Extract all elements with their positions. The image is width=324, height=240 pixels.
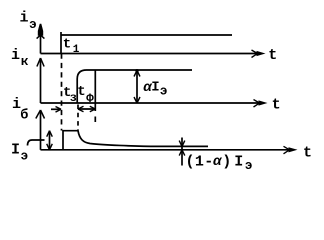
wire: i_k exponential rise waveform [77,70,192,103]
svg-text:)I: )I [222,154,246,171]
svg-text:t: t [63,36,71,52]
svg-text:з: з [70,91,77,105]
wire: dashed marker at rise start [77,105,79,131]
svg-text:Ф: Ф [86,92,94,106]
svg-text:t: t [272,97,281,114]
wire: i_e step waveform [61,32,232,54]
svg-text:э: э [245,158,253,173]
svg-text:i: i [11,47,20,64]
node label i_k (plot2 current label) [11,47,29,69]
svg-text:1: 1 [73,44,80,56]
wire: plot2 horizontal time axis with arrow [41,100,268,108]
svg-text:э: э [160,84,168,99]
svg-text:I: I [11,142,20,159]
wire: double arrow for t_f interval [78,106,95,112]
wire: arrow pointing right toward t1 marker [51,107,61,113]
svg-text:э: э [21,148,29,163]
node label (1-alpha)I_e [186,154,253,174]
wire: plot2 vertical axis with barb arrow [37,58,44,103]
svg-text:t: t [77,84,85,100]
svg-text:t: t [303,144,312,161]
wire: plot1 horizontal time axis with arrow [41,50,266,58]
svg-text:t: t [268,47,277,64]
node label i_b (plot3 current label) [12,96,28,124]
node label t_z (delay time) [63,85,77,105]
wire: (1-alpha)I_e marker with converging arrows [179,138,185,166]
node label t_f (rise time) [77,84,94,106]
wire: i_b pulse with exponential decay waveform [63,131,208,150]
wire: alpha*I_e amplitude double arrow [134,69,140,103]
svg-text:э: э [29,17,37,32]
node label t_1 [63,36,80,56]
wire: plot3 horizontal time axis with arrow [41,146,298,154]
wire: leader line from I_e label [28,140,45,146]
wire: I_e pulse height double arrow [47,131,53,150]
wire: plot1 vertical axis with filled arrow [37,24,45,54]
svg-text:б: б [20,108,28,124]
node label alpha I_e [143,80,167,99]
wire: dashed marker at t1 [61,54,63,131]
svg-text:к: к [21,54,29,69]
svg-text:I: I [151,80,159,96]
wire: rise end marker line [94,70,96,122]
node label i_e (plot1 current label) [20,9,37,32]
node label I_e [11,142,28,164]
wire: plot3 vertical axis with barb arrow [36,110,45,150]
svg-text:i: i [20,9,29,26]
svg-text:(1-: (1- [186,154,214,171]
